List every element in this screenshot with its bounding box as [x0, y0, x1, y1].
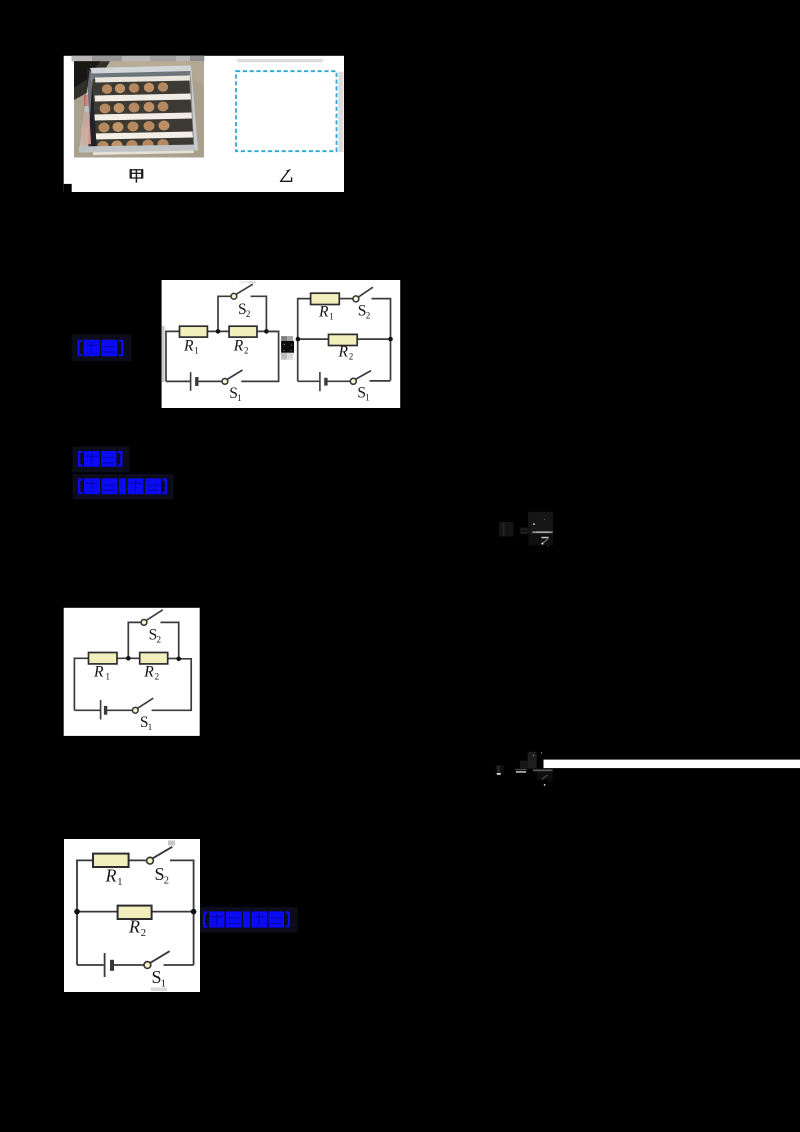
- svg-text:1: 1: [194, 346, 199, 356]
- dark vertical stick at left: [87, 69, 98, 151]
- svg-text:R: R: [128, 917, 140, 937]
- resistor R2: [140, 653, 168, 664]
- equals sign: [515, 769, 526, 770]
- svg-text:1: 1: [365, 393, 370, 403]
- junction node right (circuit A): [264, 329, 269, 334]
- faint glyph blocks: [496, 765, 504, 775]
- I glyph hint: [503, 523, 505, 536]
- resistor R1: [93, 854, 129, 867]
- svg-text:R: R: [183, 338, 194, 355]
- svg-text:R: R: [233, 338, 244, 355]
- junction node left: [126, 656, 131, 661]
- switch S1 blade (circuit B): [356, 371, 371, 380]
- svg-text:1: 1: [106, 672, 111, 682]
- fraction bar: [533, 770, 553, 772]
- wire: R2 to right junction: [257, 330, 279, 332]
- junction node left: [74, 909, 80, 915]
- wire: S2 branch left vertical: [128, 622, 141, 658]
- resistor R1 (circuit A): [180, 326, 208, 337]
- junction node left (circuit A): [216, 329, 221, 334]
- wire: R1-R2 middle link: [207, 330, 229, 332]
- switch S1 blade (circuit A): [227, 370, 242, 379]
- 和 glyph block (black with white speckles): [281, 341, 294, 353]
- svg-text:2: 2: [349, 352, 354, 362]
- switch S2 contact circle (circuit B): [353, 296, 359, 302]
- wire: R1-R2 middle link: [117, 657, 140, 659]
- gray scanning strip above photo: [72, 56, 205, 62]
- svg-text:1: 1: [237, 393, 242, 403]
- wire: battery to S1: [197, 380, 222, 382]
- label xiaowen-2-xiangjie (part 2 solution) halo: [198, 907, 298, 933]
- 和 separator: light gray box below: [281, 353, 287, 360]
- wire: bottom left to battery: [166, 380, 190, 382]
- label xiaowen-1-xiangjie (part 1 solution): [78, 478, 167, 494]
- numerator speck: [533, 755, 535, 757]
- denominator 2 diagonal: [542, 539, 548, 544]
- svg-text:1: 1: [161, 979, 166, 990]
- svg-text:2: 2: [141, 928, 146, 939]
- dark top-left corner shadow: [74, 61, 110, 100]
- label xiaowen-2-xiangjie (part 2 solution): [203, 911, 290, 927]
- resistor R1 (circuit B): [311, 293, 340, 304]
- resistor R2: [118, 906, 152, 919]
- switch S2 contact circle: [141, 620, 147, 626]
- wire: battery to S1: [113, 964, 144, 966]
- svg-text:R: R: [318, 304, 329, 321]
- white panel background: [64, 56, 344, 192]
- wire: top branch left: [77, 860, 93, 965]
- battery (circuit A): [190, 372, 192, 391]
- junction node right: [191, 909, 197, 915]
- svg-text:1: 1: [148, 722, 153, 732]
- switch S2 contact circle (circuit A): [231, 293, 237, 299]
- svg-text:R: R: [143, 664, 154, 681]
- faint gray strip above dashed box: [237, 59, 323, 63]
- equals sign hint: [521, 529, 528, 530]
- gray speck below S1 label: [151, 988, 167, 992]
- faint glyph blocks: [499, 522, 514, 537]
- switch S1 blade: [150, 951, 169, 963]
- wire: R1 to S2 (circuit B): [339, 298, 353, 300]
- I glyph hint: [498, 766, 500, 774]
- svg-text:R: R: [338, 344, 349, 361]
- battery: [100, 700, 102, 720]
- label xiaowen-1-xiangjie (part 1 solution) halo: [73, 474, 174, 500]
- battery (circuit B): [319, 372, 321, 391]
- switch S1 blade: [138, 698, 154, 708]
- desk background: [74, 61, 204, 157]
- wire: S1 to right corner (circuit B): [370, 380, 391, 382]
- wire: bottom left to battery: [74, 709, 100, 711]
- denominator R bar: [541, 537, 548, 539]
- label 乙: [281, 170, 292, 181]
- fraction bar: [532, 531, 552, 533]
- numerator speck: [533, 523, 535, 525]
- denominator 2 diagonal: [542, 775, 548, 780]
- junction node right (circuit B): [388, 337, 393, 342]
- white rails and egg rows: [93, 76, 194, 156]
- black notch bottom-left of panel: [64, 184, 72, 192]
- switch S2 blade (circuit A): [236, 284, 253, 294]
- label da-an (answer): [78, 340, 124, 356]
- junction node left (circuit B): [296, 337, 301, 342]
- battery: [104, 953, 106, 977]
- photo of egg incubator box (甲): [74, 61, 204, 157]
- wire: S2 parallel branch left vertical: [218, 296, 231, 331]
- wire: left L of circuit A: [166, 331, 180, 381]
- dashed placeholder box (乙): [236, 71, 337, 151]
- wire: S2 to right vertical: [170, 860, 194, 965]
- svg-text:1: 1: [329, 312, 334, 322]
- wire: bottom left to battery: [77, 964, 104, 966]
- wire: S2 to right vertical (circuit B): [372, 299, 391, 340]
- desk wedge top right: [185, 61, 204, 85]
- wire: middle R2 branch (circuit B): [298, 338, 391, 340]
- wire: S2 branch right side: [251, 296, 267, 331]
- wire: S1 to right corner: [164, 964, 194, 966]
- label da-an (answer) halo: [72, 335, 132, 362]
- white panel background: [64, 608, 200, 736]
- box front face: [79, 145, 198, 153]
- gray speck above S2: [168, 841, 175, 846]
- switch S1 contact circle: [132, 707, 138, 713]
- wire: R1 to S2: [129, 859, 147, 861]
- resistor R2 (circuit B): [329, 334, 358, 345]
- wire: S2 branch right side: [160, 622, 178, 658]
- switch S1 contact circle (circuit B): [350, 378, 356, 384]
- svg-text:2: 2: [246, 309, 251, 319]
- switch S1 contact circle (circuit A): [222, 379, 228, 385]
- label 甲: [131, 169, 143, 183]
- gray strip right of dashed box: [338, 72, 343, 152]
- inner dark cavity: [88, 77, 194, 150]
- box side hints: [79, 68, 93, 153]
- wire: R2 to right junction: [168, 658, 179, 660]
- white panel background: [64, 839, 200, 992]
- box outer shell: [79, 66, 198, 153]
- svg-text:R: R: [105, 866, 117, 886]
- switch S2 blade (circuit B): [358, 287, 373, 297]
- svg-text:R: R: [93, 664, 104, 681]
- svg-text:2: 2: [366, 311, 371, 321]
- wire: S1 to right corner: [152, 659, 192, 711]
- label jie-xi (analysis) halo: [73, 447, 130, 473]
- switch S2 contact circle: [147, 857, 154, 864]
- switch S1 contact circle: [144, 962, 151, 969]
- wire: battery to S1 (circuit B): [326, 380, 350, 382]
- wire: battery to S1: [106, 709, 132, 711]
- wire: left vertical (circuit B): [298, 299, 311, 382]
- box top rim: [90, 66, 191, 75]
- switch S2 blade: [146, 610, 162, 621]
- wire: right vertical lower (circuit B): [390, 339, 392, 380]
- resistor R1: [89, 653, 118, 664]
- svg-text:1: 1: [117, 877, 122, 888]
- svg-text:2: 2: [164, 876, 169, 887]
- gray patch top edge artifact: [239, 281, 248, 284]
- gray bar at panel left edge: [162, 326, 165, 382]
- 和 separator: gray box above: [281, 336, 287, 341]
- wire: middle R2 branch: [77, 911, 194, 913]
- junction node right: [176, 657, 181, 662]
- label jie-xi (analysis): [78, 451, 123, 467]
- white panel background: [162, 280, 401, 408]
- svg-text:2: 2: [244, 346, 249, 356]
- wire: S1 to right corner: [241, 331, 278, 381]
- switch S2 blade: [153, 847, 172, 858]
- svg-text:2: 2: [155, 672, 160, 682]
- wire: left L: [74, 658, 88, 710]
- wire: bottom left to battery (circuit B): [298, 380, 320, 382]
- svg-text:2: 2: [157, 635, 162, 645]
- left red items behind plastic: [84, 95, 92, 106]
- resistor R2 (circuit A): [229, 326, 257, 337]
- long white answer bar: [544, 760, 800, 769]
